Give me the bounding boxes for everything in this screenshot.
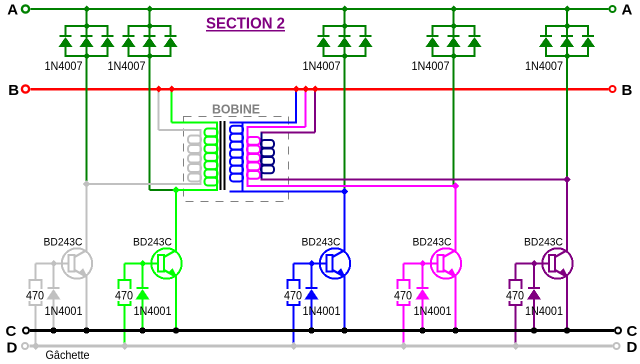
diode D4 1N4001 xyxy=(416,264,430,331)
junction dot base node Q5 xyxy=(531,260,538,267)
svg-text:470: 470 xyxy=(115,289,133,303)
diode D5 1N4001 xyxy=(527,264,541,331)
wire emitter of Q1 to rail C xyxy=(86,277,88,331)
transistor Q1 BD243C xyxy=(62,248,92,278)
resistor R3 470 xyxy=(288,264,300,347)
node1 junction dot xyxy=(83,180,91,188)
junction dot rail C diode D1 xyxy=(50,327,56,333)
junction dot rail D section 3 xyxy=(290,342,298,350)
diode group G4 1N4007 (3 parallel diodes) xyxy=(426,6,482,60)
wire group G3 column to node3 xyxy=(344,57,346,192)
svg-text:SECTION 2: SECTION 2 xyxy=(206,16,285,33)
svg-text:1N4007: 1N4007 xyxy=(303,59,341,73)
junction dot base node Q3 xyxy=(308,260,315,267)
svg-text:1N4001: 1N4001 xyxy=(414,304,452,318)
junction dot rail C emitter Q3 xyxy=(341,327,347,333)
wire winding L3 bottom to node3 (blue) xyxy=(230,191,345,193)
svg-text:470: 470 xyxy=(506,289,524,303)
junction dot rail C diode D5 xyxy=(531,327,537,333)
wire group G1 column to node1 xyxy=(86,57,88,184)
junction dot rail C emitter Q2 xyxy=(173,327,179,333)
terminal D right xyxy=(614,343,620,349)
svg-text:1N4007: 1N4007 xyxy=(412,59,450,73)
junction dot rail B green winding xyxy=(168,86,175,93)
diode D2 1N4001 xyxy=(136,264,150,331)
junction dot rail D section 2 xyxy=(121,342,129,350)
label 470 R3 xyxy=(283,289,303,301)
node5 junction dot xyxy=(563,176,571,184)
junction dot base node Q4 xyxy=(419,260,426,267)
svg-text:B: B xyxy=(8,82,19,99)
svg-text:1N4001: 1N4001 xyxy=(525,304,563,318)
wire base of Q1 xyxy=(36,263,69,265)
winding L1 (gray) of BOBINE xyxy=(158,89,202,184)
winding L5 (navy/purple) of BOBINE xyxy=(261,89,317,180)
svg-text:D: D xyxy=(627,339,638,356)
wire node1 down to Q1 collector (gray) xyxy=(86,184,88,251)
svg-text:1N4007: 1N4007 xyxy=(108,59,146,73)
node2 junction dot xyxy=(172,186,180,194)
wire winding L4 bottom to node4 (magenta) xyxy=(247,185,456,187)
label 470 R5 xyxy=(505,289,525,301)
diode group G5 1N4007 (3 parallel diodes) xyxy=(539,6,595,60)
terminal B left xyxy=(22,85,29,92)
junction dot rail B magenta winding xyxy=(302,86,309,93)
svg-text:D: D xyxy=(7,340,18,357)
junction dot base node Q2 xyxy=(139,260,146,267)
svg-text:BD243C: BD243C xyxy=(524,237,563,249)
svg-text:Gâchette: Gâchette xyxy=(46,348,90,362)
resistor R5 470 xyxy=(510,264,522,347)
wire emitter of Q5 to rail C xyxy=(566,277,568,331)
wire node3 down to Q3 collector (blue) xyxy=(344,192,346,251)
resistor R4 470 xyxy=(398,264,410,347)
label 470 R1 xyxy=(25,289,45,301)
wire base of Q2 xyxy=(125,263,159,265)
junction dot rail D section 5 xyxy=(512,342,520,350)
wire emitter of Q2 to rail C xyxy=(175,277,177,331)
junction dot rail D section 1 xyxy=(32,342,40,350)
wire rail B (net B, red) xyxy=(31,88,609,91)
svg-text:BD243C: BD243C xyxy=(44,237,83,249)
winding L3 (blue) of BOBINE xyxy=(230,89,298,192)
wire group G4 column to node4 xyxy=(453,57,455,186)
terminal B right xyxy=(610,86,616,92)
terminal A left xyxy=(22,5,29,12)
wire group G2 column to node2 (jog) xyxy=(149,57,151,190)
junction dot rail D R4 xyxy=(400,343,407,350)
junction dot rail D R3 xyxy=(290,343,297,350)
junction dot rail B blue winding xyxy=(293,86,300,93)
node3 junction dot xyxy=(341,188,349,196)
svg-text:470: 470 xyxy=(26,289,44,303)
junction dot base node Q1 xyxy=(50,260,57,267)
svg-text:BD243C: BD243C xyxy=(302,237,341,249)
transformer core xyxy=(220,121,222,190)
svg-text:BD243C: BD243C xyxy=(133,237,172,249)
wire base of Q3 xyxy=(294,263,327,265)
transistor Q2 BD243C xyxy=(151,248,181,278)
svg-text:A: A xyxy=(7,2,18,19)
diode group G1 1N4007 (3 parallel diodes) xyxy=(59,6,115,60)
junction dot rail C emitter Q4 xyxy=(452,327,458,333)
svg-text:BD243C: BD243C xyxy=(413,237,452,249)
wire winding L5 bottom to node5 (purple) xyxy=(261,179,568,181)
junction dot rail D section 4 xyxy=(400,342,408,350)
wire base of Q4 xyxy=(404,263,438,265)
wire base of Q5 xyxy=(516,263,550,265)
terminal C right xyxy=(615,328,621,334)
junction dot rail C diode D2 xyxy=(139,327,145,333)
wire rail A (net A, dark green) xyxy=(31,8,609,10)
terminal C left xyxy=(23,328,29,334)
diode D1 1N4001 xyxy=(47,264,61,331)
svg-text:470: 470 xyxy=(284,289,302,303)
label 470 R2 xyxy=(114,289,134,301)
junction dot rail B purple winding xyxy=(312,86,319,93)
wire group G5 column to node5 xyxy=(566,57,568,180)
svg-text:1N4001: 1N4001 xyxy=(134,304,172,318)
wire rail D gachette (net D, gray) xyxy=(30,345,613,348)
wire node2 down to Q2 collector (green) xyxy=(175,190,177,251)
junction dot rail C emitter Q1 xyxy=(83,327,89,333)
junction dot rail D R2 xyxy=(121,343,128,350)
junction dot rail C diode D4 xyxy=(419,327,425,333)
winding L4 (magenta) of BOBINE xyxy=(247,89,307,186)
wire rail C (net C, black) xyxy=(30,329,614,332)
svg-text:C: C xyxy=(6,323,17,340)
transistor Q5 BD243C xyxy=(542,248,572,278)
svg-text:BOBINE: BOBINE xyxy=(212,102,260,117)
svg-text:1N4001: 1N4001 xyxy=(45,304,83,318)
junction dot rail D R5 xyxy=(512,343,519,350)
junction dot rail C emitter Q5 xyxy=(564,327,570,333)
winding L2 (green) of BOBINE xyxy=(171,89,219,190)
svg-text:B: B xyxy=(622,82,633,99)
junction dot rail D R1 xyxy=(32,343,39,350)
svg-text:C: C xyxy=(627,323,638,340)
wire winding L2 bottom to node2 (green) xyxy=(176,189,218,191)
diode group G2 1N4007 (3 parallel diodes) xyxy=(122,6,178,60)
svg-text:1N4007: 1N4007 xyxy=(45,59,83,73)
wire emitter of Q3 to rail C xyxy=(344,277,346,331)
transistor Q4 BD243C xyxy=(431,248,461,278)
svg-text:1N4001: 1N4001 xyxy=(303,304,341,318)
resistor R1 470 xyxy=(30,264,42,347)
resistor R2 470 xyxy=(119,264,131,347)
transistor Q3 BD243C xyxy=(320,248,350,278)
wire node4 down to Q4 collector (magenta) xyxy=(455,186,457,251)
junction dot rail C diode D3 xyxy=(308,327,314,333)
wire winding L1 bottom to node1 (gray) xyxy=(87,183,202,185)
node4 junction dot xyxy=(452,182,460,190)
wire emitter of Q4 to rail C xyxy=(455,277,457,331)
diode group G3 1N4007 (3 parallel diodes) xyxy=(317,6,373,60)
transformer T1 BOBINE dashed box xyxy=(184,117,289,202)
svg-text:A: A xyxy=(622,2,633,19)
junction dot rail B gray winding xyxy=(155,86,162,93)
terminal A right xyxy=(610,6,616,12)
label 470 R4 xyxy=(393,289,413,301)
svg-text:470: 470 xyxy=(394,289,412,303)
svg-text:1N4007: 1N4007 xyxy=(525,59,563,73)
terminal D left xyxy=(22,343,28,349)
diode D3 1N4001 xyxy=(305,264,319,331)
wire node5 down to Q5 collector (purple) xyxy=(566,180,568,251)
